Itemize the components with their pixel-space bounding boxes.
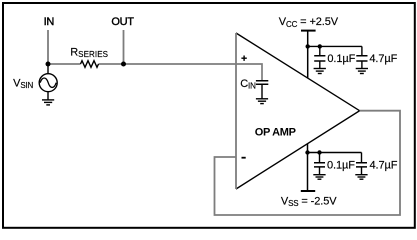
- wire input node to resistor: [48, 63, 81, 65]
- wire resistor to op-amp + input: [99, 63, 237, 65]
- wire + input to CIN: [236, 64, 262, 80]
- capacitor 0.1uF (VSS): [314, 153, 325, 175]
- source VSIN circle: [39, 74, 57, 92]
- svg-text:0.1µF: 0.1µF: [327, 53, 355, 65]
- ground at VSIN: [42, 92, 54, 105]
- op-amp + pin marker: [241, 56, 246, 61]
- svg-text:4.7µF: 4.7µF: [370, 159, 398, 171]
- op-amp U1 triangle: [236, 33, 360, 189]
- junction dot VSS 2: [317, 150, 321, 154]
- wire OUT stub: [123, 30, 125, 64]
- capacitor 4.7uF (VCC): [356, 46, 367, 68]
- junction dot node OUT: [121, 62, 126, 67]
- wire IN stub: [47, 30, 49, 64]
- wire VSS op-amp to rail: [307, 144, 309, 191]
- junction dot VCC 1: [306, 44, 310, 48]
- resistor RSERIES: [81, 61, 99, 68]
- svg-text:OUT: OUT: [111, 16, 134, 28]
- capacitor 0.1uF (VCC): [314, 46, 325, 68]
- ground at 4.7uF (VSS): [355, 175, 367, 180]
- svg-text:IN: IN: [44, 16, 55, 28]
- VSS rail bar: [301, 190, 315, 192]
- ground at 0.1uF (VSS): [313, 175, 325, 180]
- capacitor 4.7uF (VSS): [356, 153, 367, 175]
- op-amp left edge wire: [235, 33, 237, 189]
- svg-text:0.1µF: 0.1µF: [327, 159, 355, 171]
- capacitor CIN plates: [256, 81, 268, 85]
- VCC rail bar: [301, 30, 316, 32]
- source VSIN lead: [47, 64, 49, 74]
- wire output feedback loop: [215, 111, 401, 215]
- svg-text:4.7µF: 4.7µF: [369, 53, 397, 65]
- ground at 4.7uF (VCC): [356, 69, 368, 74]
- junction dot VCC 2: [318, 44, 322, 48]
- svg-text:OP AMP: OP AMP: [255, 127, 296, 139]
- junction dot node IN: [46, 62, 51, 67]
- wire VSS bypass branch: [308, 152, 362, 154]
- source VSIN sine wave: [40, 78, 56, 87]
- op-amp - pin marker: [242, 157, 246, 159]
- wire VCC bypass branch: [308, 45, 362, 47]
- ground at CIN: [256, 84, 268, 103]
- wire VCC rail to op-amp: [307, 31, 309, 78]
- ground at 0.1uF (VCC): [314, 69, 326, 74]
- junction dot VSS 1: [305, 150, 309, 154]
